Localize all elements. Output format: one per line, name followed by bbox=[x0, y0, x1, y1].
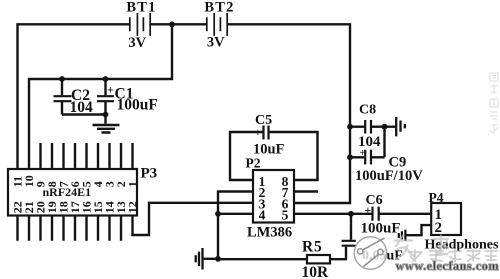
wire C5 right to pin8 bbox=[269, 132, 318, 180]
wire between BT1 and BT2 bbox=[151, 23, 206, 25]
wire zobel stem to C7 bbox=[350, 214, 352, 240]
svg-text:+: + bbox=[365, 203, 372, 217]
watermark right edge vertical glyph marks bbox=[490, 73, 498, 134]
node C8 ground side bbox=[382, 124, 388, 130]
wire P3 pin12 to LM386 pin3 bbox=[133, 203, 255, 235]
svg-text:+: + bbox=[360, 148, 366, 159]
wire V+ rail to C8 bbox=[350, 125, 364, 127]
battery BT2 bbox=[207, 13, 227, 36]
capacitor C2 bbox=[54, 79, 72, 115]
node C9 rail bbox=[347, 154, 353, 160]
svg-text:3V: 3V bbox=[207, 35, 225, 51]
capacitor C6 bbox=[373, 207, 379, 221]
wire pin2 to ground rail bbox=[218, 192, 253, 259]
svg-text:12: 12 bbox=[126, 201, 140, 213]
svg-text:2: 2 bbox=[435, 220, 443, 236]
svg-text:10R: 10R bbox=[302, 264, 330, 279]
op-amp P2 LM386 body bbox=[253, 170, 294, 223]
node C1 bottom ground bbox=[103, 112, 109, 118]
node C2 top bbox=[59, 76, 65, 82]
ground right of C8 bbox=[385, 117, 405, 136]
svg-text:BT2: BT2 bbox=[204, 0, 234, 15]
node output zobel tap bbox=[348, 211, 354, 217]
ground at P4 bbox=[399, 230, 406, 241]
P3 bottom pins bbox=[18, 216, 122, 241]
node pin4 tee bbox=[215, 211, 221, 217]
svg-text:+: + bbox=[107, 83, 114, 97]
wire pin5 output to C6 bbox=[294, 213, 372, 215]
svg-text:100uF/10V: 100uF/10V bbox=[355, 168, 423, 184]
svg-text:P2: P2 bbox=[246, 156, 261, 171]
wire BT2 to V+ rail and down to pin6 bbox=[228, 24, 350, 203]
svg-text:3V: 3V bbox=[128, 35, 146, 51]
P3 top pins bbox=[41, 143, 133, 169]
watermark lower CJK-like band bbox=[409, 250, 497, 261]
node C1 top bbox=[103, 76, 109, 82]
wire R5 left to ground node bbox=[218, 258, 307, 260]
wire C7 to R5 bbox=[331, 247, 346, 259]
capacitor C9 bbox=[365, 150, 371, 165]
capacitor C1 bbox=[97, 79, 114, 115]
ground under C1 bbox=[93, 115, 120, 133]
wire C8 node down to C9 bbox=[383, 127, 385, 158]
svg-text:P4: P4 bbox=[429, 190, 444, 205]
battery BT1 bbox=[130, 13, 150, 36]
wire C5 left to pin1 bbox=[230, 132, 263, 180]
svg-text:100uF: 100uF bbox=[361, 221, 401, 237]
svg-text:+: + bbox=[255, 125, 262, 139]
node battery midpoint bbox=[169, 21, 175, 27]
connector P4 body bbox=[431, 203, 461, 235]
svg-text:LM386: LM386 bbox=[247, 225, 292, 241]
wire C2 bottom to C1 bottom bbox=[62, 113, 106, 115]
wire C6 to P4 pin1 bbox=[380, 213, 432, 215]
wire pin7 stub bbox=[294, 190, 318, 192]
wire pin4 tee bbox=[218, 213, 253, 215]
svg-text:10uF: 10uF bbox=[253, 142, 285, 158]
resistor R5 body bbox=[307, 255, 330, 263]
svg-text:104: 104 bbox=[70, 99, 94, 116]
watermark CJK-like glyph squiggles bbox=[395, 236, 449, 259]
wire C9 to node bbox=[372, 156, 385, 158]
svg-text:5: 5 bbox=[282, 208, 289, 223]
wire battery midpoint down to mid rail bbox=[29, 25, 172, 169]
svg-text:C8: C8 bbox=[359, 103, 376, 118]
wire V+ rail to C9 bbox=[350, 156, 364, 158]
svg-text:P3: P3 bbox=[141, 166, 158, 182]
wire C8 to ground node bbox=[372, 125, 385, 127]
capacitor C5 bbox=[264, 126, 269, 140]
wire P4 pin2 to ground bbox=[406, 225, 431, 235]
connector P3 body bbox=[8, 169, 137, 216]
svg-text:100uF: 100uF bbox=[117, 97, 158, 114]
svg-text:www.elecfans.com: www.elecfans.com bbox=[396, 259, 500, 273]
svg-text:4: 4 bbox=[259, 208, 266, 223]
capacitor C7 bbox=[342, 241, 356, 246]
wire top-left rail to BT1 bbox=[16, 24, 129, 169]
ground bottom-left bbox=[196, 248, 218, 270]
svg-text:BT1: BT1 bbox=[126, 0, 156, 15]
node C8 rail bbox=[347, 124, 353, 130]
capacitor C8 bbox=[365, 120, 371, 134]
node ground rail bottom bbox=[215, 256, 221, 262]
svg-text:1: 1 bbox=[126, 181, 140, 187]
svg-text:R5: R5 bbox=[302, 239, 323, 256]
watermark logo circle bbox=[354, 237, 386, 269]
